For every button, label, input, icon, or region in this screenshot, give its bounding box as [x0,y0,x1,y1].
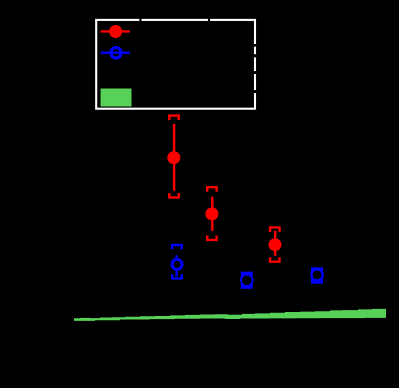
blue data point 2 marker [241,275,253,287]
red data point 3 error bar lines [270,227,279,261]
legend red entry line [101,30,130,32]
text gap on legend right border (y=91.5) [253,90,257,93]
green uncertainty band [74,309,386,322]
red data point 3 marker [269,238,282,251]
legend green band swatch [101,89,132,107]
legend box [96,20,255,109]
red data point 2 bottom cap [207,236,216,240]
blue data point 1 error bar [172,245,182,278]
red data point 2 marker [205,207,218,220]
blue data point 2 error bar [242,273,252,288]
blue data point 1 marker [172,259,182,269]
legend red entry marker [109,25,122,38]
red data point 1 top cap [169,116,178,121]
red data point 2 top cap [207,187,216,192]
tick gap over legend top border (x=209) [208,18,210,22]
legend blue entry marker [111,48,121,58]
text gap on legend right border (y=72) [253,71,257,74]
red data point 3 top cap [270,227,279,232]
text gap on legend right border (y=55.5) [253,54,257,57]
text gap on legend right border (y=45) [253,44,257,47]
red data point 2 error bar lines [207,187,216,240]
red data point 3 bottom cap [270,257,279,261]
legend blue entry line [101,52,130,54]
blue data point 3 error bar [312,268,322,282]
red data point 1 bottom cap [169,193,178,197]
red data point 1 marker [167,151,180,164]
tick gap over legend top border (x=140) [139,18,141,22]
red data point 1 error bar line [169,116,178,198]
blue data point 3 marker [311,269,322,280]
